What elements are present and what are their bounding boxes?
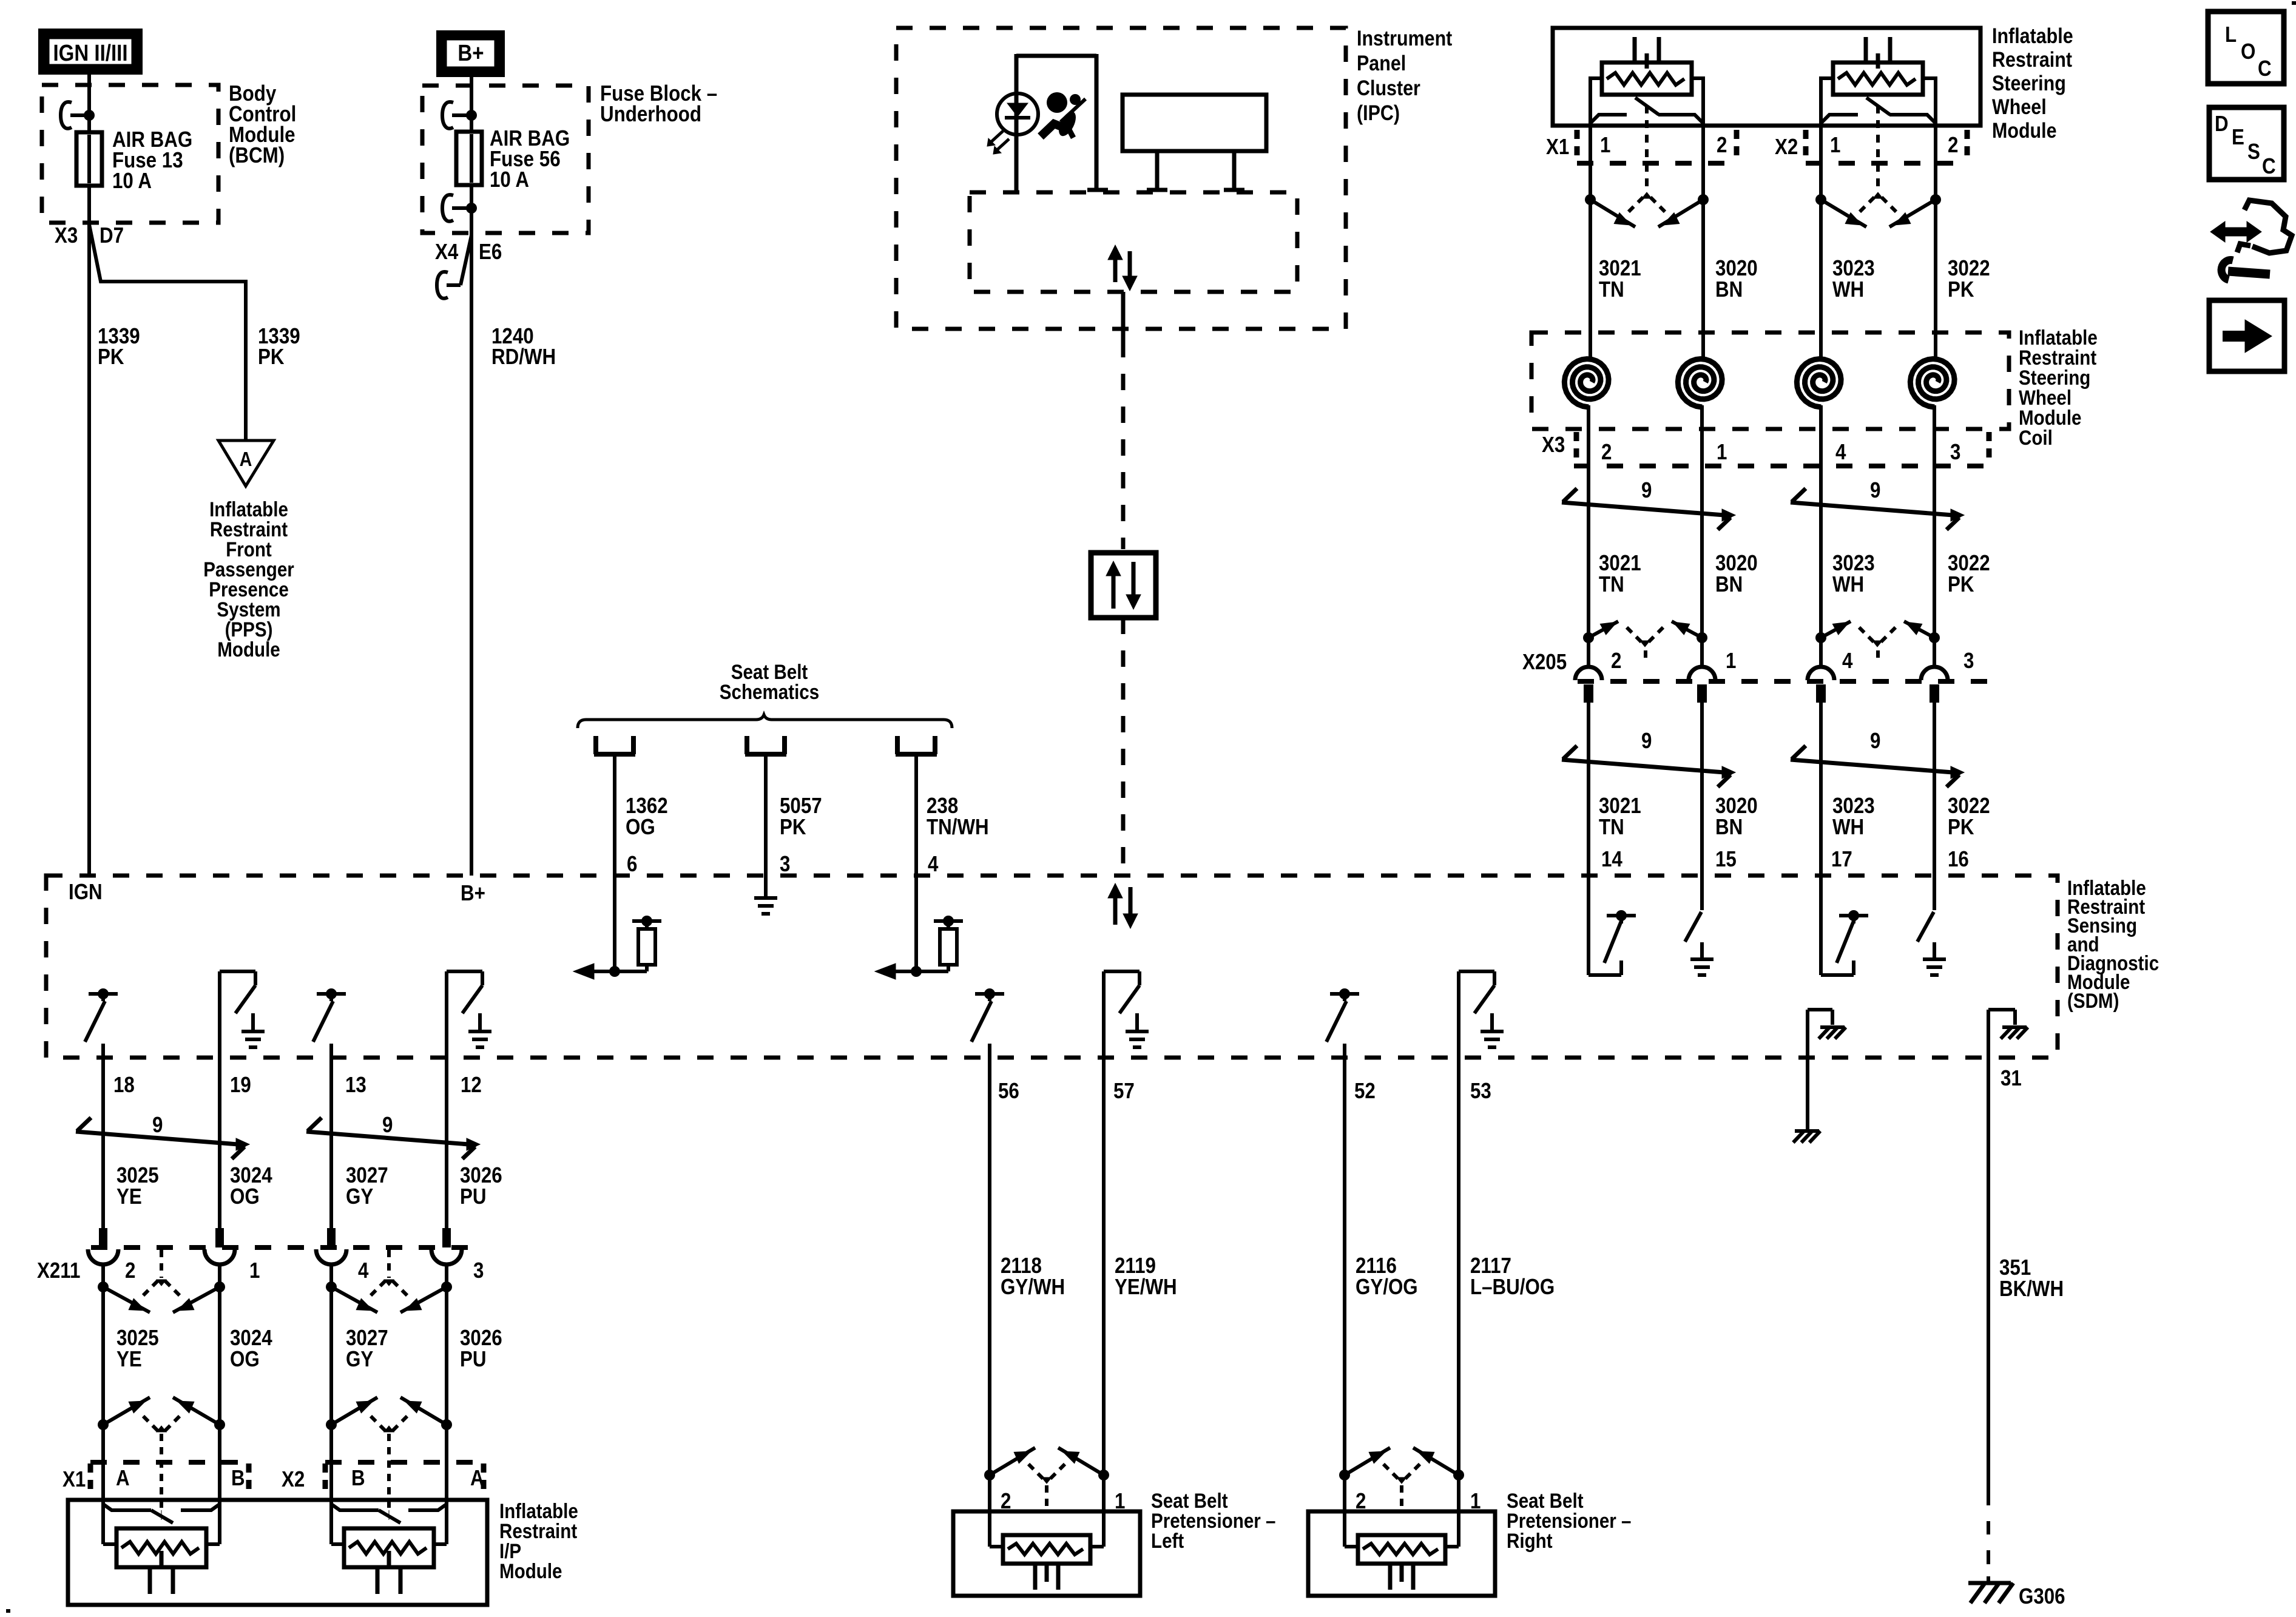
- serial data link box: [1091, 553, 1156, 618]
- label 1240 RD/WH: [491, 324, 556, 370]
- steering wheel module coil dashed box: [1531, 333, 2009, 429]
- svg-text:GY/WH: GY/WH: [1001, 1275, 1065, 1300]
- wire below X205 at x=2805: [1700, 703, 1704, 876]
- svg-text:WH: WH: [1832, 815, 1864, 840]
- wire below X205 at x=2618: [1587, 703, 1590, 876]
- wire through coil x=2618: [1587, 405, 1590, 668]
- connector labels X3 D7: [55, 223, 124, 248]
- svg-text:52: 52: [1354, 1079, 1376, 1104]
- harness marker 9 (IP wires right pair): [306, 1118, 480, 1159]
- wire 3020 BN from steering wheel module to coil: [1701, 123, 1705, 357]
- wire below X211 at x=546: [329, 1287, 333, 1425]
- terminal curl at BCM input: [61, 102, 85, 129]
- svg-text:Module: Module: [499, 1559, 562, 1582]
- svg-text:B: B: [231, 1466, 245, 1491]
- wire 3027 GY from SDM to X211: [329, 1058, 333, 1228]
- wire: B+ feed down to SDM pin 1: [470, 77, 473, 876]
- wire labels 3025 YE 3024 OG 3027 GY 3026 PU (row 2): [116, 1326, 502, 1372]
- svg-text:C: C: [2262, 154, 2276, 179]
- svg-text:9: 9: [1641, 729, 1652, 754]
- svg-text:2: 2: [1717, 133, 1727, 158]
- svg-text:S: S: [2247, 140, 2260, 164]
- svg-text:TN: TN: [1599, 572, 1624, 597]
- fuse AIR BAG Fuse 56: [456, 132, 482, 185]
- svg-text:1: 1: [1717, 440, 1727, 465]
- svg-text:Schematics: Schematics: [720, 680, 819, 703]
- shorting bar connector below X211 right pair: [326, 1250, 452, 1312]
- svg-text:B+: B+: [461, 881, 485, 906]
- svg-text:L–BU/OG: L–BU/OG: [1470, 1275, 1555, 1300]
- wire: 1339 PK branch to PPS module: [89, 224, 246, 441]
- svg-text:X2: X2: [282, 1467, 305, 1492]
- svg-text:Steering: Steering: [1992, 71, 2066, 95]
- svg-text:X2: X2: [1775, 135, 1798, 160]
- serial data wire from IPC to serial box: [1121, 292, 1126, 549]
- label 351 BK/WH: [1999, 1255, 2064, 1301]
- wire below X211 at x=362: [218, 1287, 221, 1425]
- svg-text:1: 1: [1726, 649, 1736, 673]
- seat belt harness connector bracket at x=1262: [745, 736, 786, 754]
- svg-text:2: 2: [1611, 649, 1621, 673]
- svg-text:6: 6: [627, 852, 637, 877]
- wire 2118 GY/WH: [988, 1058, 991, 1475]
- connector X211 pin and socket at x=362: [204, 1228, 235, 1287]
- svg-text:BK/WH: BK/WH: [1999, 1277, 2064, 1301]
- svg-text:BN: BN: [1715, 815, 1743, 840]
- svg-text:WH: WH: [1832, 572, 1864, 597]
- power feed box IGN II/III: [38, 29, 143, 75]
- SDM firing switch pin 14: [1589, 876, 1636, 975]
- svg-text:D7: D7: [100, 223, 124, 248]
- SDM bottom pin labels: [113, 1066, 2022, 1104]
- squib connector at left pretensioner: [984, 1448, 1109, 1511]
- wire 3025 YE from SDM to X211: [101, 1058, 105, 1228]
- svg-text:PK: PK: [1948, 815, 1974, 840]
- svg-text:13: 13: [345, 1073, 366, 1098]
- serial data arrows inside SDM: [1108, 883, 1138, 928]
- icon box LOC: [2208, 12, 2284, 84]
- clockspring coil at x=2618: [1564, 359, 1609, 408]
- svg-text:E: E: [2232, 125, 2244, 150]
- driver air bag squib 1 (steering wheel module): [1590, 37, 1703, 189]
- svg-text:56: 56: [998, 1079, 1019, 1104]
- svg-text:(SDM): (SDM): [2067, 989, 2119, 1012]
- junction dot at fuse 56 input: [466, 110, 477, 121]
- svg-text:1: 1: [1600, 133, 1610, 158]
- telltale frame in IPC: [1016, 54, 1108, 191]
- connector X2 row (IP module): [282, 1462, 484, 1492]
- IPC display rectangle with legs: [1123, 95, 1266, 191]
- wire into IP module at x=362: [218, 1425, 221, 1504]
- wire through coil x=3188: [1933, 405, 1936, 668]
- junction dot at BCM fuse input: [84, 110, 95, 121]
- inflatable restraint IP module box: [68, 1500, 487, 1605]
- svg-text:4: 4: [928, 852, 939, 877]
- clockspring coil at x=3188: [1910, 359, 1954, 408]
- clockspring coil at x=2805: [1678, 359, 1722, 408]
- SDM firing switch pin 13: [313, 988, 346, 1058]
- svg-text:TN/WH: TN/WH: [927, 815, 989, 840]
- label 9 lower right: [1870, 729, 1880, 754]
- label Inflatable Restraint Steering Wheel Module: [1992, 24, 2073, 142]
- svg-text:3: 3: [1950, 440, 1960, 465]
- svg-text:A: A: [470, 1466, 484, 1491]
- sensor resistor network for wire 238 inside SDM: [875, 916, 963, 979]
- svg-text:E6: E6: [479, 240, 502, 265]
- label Inflatable Restraint Front Passenger Presence System (PPS) Module: [203, 498, 294, 661]
- label 2117 L-BU/OG: [1470, 1254, 1555, 1300]
- SDM dashed box (Inflatable Restraint Sensing and Diagnostic Module): [46, 876, 2058, 1058]
- svg-text:Module: Module: [1992, 118, 2057, 142]
- label 2116 GY/OG: [1356, 1254, 1418, 1300]
- svg-text:WH: WH: [1832, 277, 1864, 302]
- svg-text:OG: OG: [230, 1184, 260, 1209]
- svg-text:9: 9: [382, 1113, 393, 1138]
- SDM firing switch pin 57: [1104, 971, 1149, 1058]
- svg-text:X3: X3: [55, 223, 78, 248]
- svg-text:GY/OG: GY/OG: [1356, 1275, 1418, 1300]
- label 9 lower left: [1641, 729, 1652, 754]
- fuse AIR BAG Fuse 13: [76, 132, 102, 186]
- svg-text:A: A: [240, 448, 252, 470]
- svg-text:18: 18: [113, 1073, 135, 1098]
- seat belt pretensioner right box and squib: [1308, 1475, 1495, 1596]
- svg-text:2: 2: [1601, 440, 1612, 465]
- svg-text:Coil: Coil: [2019, 426, 2053, 449]
- connector X2 row (steering wheel module): [1775, 130, 1967, 163]
- svg-text:GY: GY: [346, 1184, 373, 1209]
- label Seat Belt Schematics: [720, 660, 819, 703]
- svg-text:2: 2: [125, 1258, 135, 1283]
- label 9 upper right: [1870, 478, 1880, 503]
- SDM firing switch pin 19: [220, 971, 265, 1058]
- svg-text:IGN II/III: IGN II/III: [53, 40, 127, 66]
- harness marker 9 (right pair, lower): [1791, 746, 1964, 787]
- connector X1 row (IP module): [62, 1462, 249, 1492]
- svg-text:3: 3: [1963, 649, 1974, 673]
- SDM firing switch pin 56: [971, 988, 1004, 1058]
- SDM pin labels 14 15 17 16: [1601, 847, 1969, 872]
- svg-text:10 A: 10 A: [490, 167, 529, 192]
- svg-text:10 A: 10 A: [112, 169, 152, 194]
- label 9 bottom left: [152, 1113, 163, 1138]
- junction dot at fuse 56 output: [466, 203, 477, 214]
- svg-text:YE/WH: YE/WH: [1115, 1275, 1177, 1300]
- squib connector at right pretensioner: [1339, 1448, 1464, 1511]
- fuse block underhood dashed box: [422, 86, 589, 233]
- SDM firing switch pin 15: [1685, 876, 1714, 975]
- svg-text:D: D: [2215, 112, 2229, 137]
- svg-text:L: L: [2225, 22, 2237, 47]
- SDM chassis ground pin 31: [1988, 1010, 2028, 1058]
- label 1362 OG: [626, 794, 668, 840]
- wire 3026 PU from SDM to X211: [445, 1058, 448, 1228]
- label 5057 PK: [780, 794, 822, 840]
- shorting bar connector above X205 right pair: [1815, 621, 1940, 663]
- SDM firing switch pin 16: [1917, 876, 1946, 975]
- label 9 bottom right: [382, 1113, 393, 1138]
- connector X211 pin and socket at x=546: [316, 1228, 346, 1287]
- svg-text:X205: X205: [1522, 650, 1567, 675]
- label X211 and pin numbers: [37, 1258, 484, 1283]
- SDM firing switch pin 53: [1459, 971, 1504, 1058]
- svg-text:O: O: [2241, 39, 2255, 64]
- label AIR BAG Fuse 56 10 A: [490, 126, 570, 192]
- svg-text:X1: X1: [1546, 135, 1569, 160]
- chassis ground below SDM: [1793, 1131, 1820, 1143]
- serial data arrows in IPC inner box: [1108, 245, 1137, 291]
- svg-text:IGN: IGN: [69, 880, 103, 905]
- LED light arrows: [987, 131, 1009, 154]
- icon box DESC: [2209, 107, 2284, 180]
- earth ground for 5057 inside SDM: [754, 876, 777, 914]
- label 9 upper left: [1641, 478, 1652, 503]
- wire labels 3025 YE 3024 OG 3027 GY 3026 PU (row 1): [116, 1163, 502, 1209]
- connector X205 socket and pin at x=3001: [1808, 667, 1834, 703]
- label 1339 PK (branch): [258, 324, 300, 370]
- wire: IGN II/III feed down to SDM pin 33: [87, 75, 91, 876]
- label Inflatable Restraint Steering Wheel Module Coil: [2019, 326, 2098, 449]
- power feed box B+: [436, 30, 505, 77]
- svg-text:53: 53: [1470, 1079, 1491, 1104]
- svg-text:B: B: [351, 1466, 365, 1491]
- svg-text:Underhood: Underhood: [600, 102, 701, 127]
- wire 3023 WH from steering wheel module to coil: [1819, 123, 1823, 357]
- connector X205 dashed line: [1578, 679, 1990, 684]
- svg-text:9: 9: [1870, 729, 1880, 754]
- terminal curl at fuse 56 input: [442, 102, 467, 129]
- wire 238 TN/WH: [914, 754, 918, 971]
- page corner mark top right: [2292, 1, 2296, 5]
- svg-text:(BCM): (BCM): [229, 143, 285, 168]
- connector X211 pin and socket at x=170: [88, 1228, 118, 1287]
- wire below X211 at x=170: [101, 1287, 105, 1425]
- shorting bar connector above IP module X1: [98, 1397, 225, 1512]
- connector X211 dashed line: [91, 1245, 482, 1250]
- wire 2119 YE/WH: [1102, 1058, 1106, 1475]
- svg-text:4: 4: [1835, 440, 1846, 465]
- wire labels 3021 TN 3020 BN 3023 WH 3022 PK (row 1): [1599, 256, 1990, 302]
- inflatable restraint steering wheel module box: [1553, 28, 1980, 126]
- svg-text:1: 1: [1830, 133, 1840, 158]
- svg-text:Right: Right: [1507, 1529, 1553, 1552]
- IPC inner dashed box: [970, 192, 1297, 292]
- stub with terminal curl at X4: [437, 235, 471, 299]
- svg-text:(IPC): (IPC): [1357, 101, 1400, 124]
- svg-text:Inflatable: Inflatable: [1992, 24, 2073, 47]
- harness marker 9 (coil wires left pair, upper): [1562, 488, 1735, 530]
- svg-text:X4: X4: [435, 240, 459, 265]
- svg-text:3: 3: [780, 852, 790, 877]
- svg-text:B+: B+: [458, 40, 484, 66]
- harness marker 9 (left pair, lower): [1562, 746, 1735, 787]
- wire labels 3021 TN 3020 BN 3023 WH 3022 PK (row 2): [1599, 551, 1990, 597]
- off-page triangle A to PPS module: [218, 441, 274, 486]
- svg-text:PU: PU: [460, 1184, 487, 1209]
- connector labels X4 E6: [435, 240, 502, 265]
- wire 3022 PK from steering wheel module to coil: [1934, 123, 1937, 357]
- svg-text:OG: OG: [230, 1347, 260, 1372]
- BCM dashed box: [42, 85, 218, 223]
- svg-text:Restraint: Restraint: [1992, 47, 2072, 71]
- svg-text:A: A: [116, 1466, 130, 1491]
- connector X211 pin and socket at x=736: [431, 1228, 462, 1287]
- serial data wire from serial box to SDM: [1121, 618, 1126, 879]
- wire into IP module at x=170: [101, 1425, 105, 1504]
- wire below X211 at x=736: [445, 1287, 448, 1425]
- svg-text:PK: PK: [1948, 572, 1974, 597]
- SDM internal chassis ground pair: [1808, 1010, 1846, 1131]
- svg-text:12: 12: [461, 1073, 482, 1098]
- svg-text:1: 1: [249, 1258, 260, 1283]
- svg-text:TN: TN: [1599, 815, 1624, 840]
- airbag indicator LED circle: [997, 93, 1038, 135]
- chassis ground G306: [1968, 1583, 2013, 1603]
- pin labels at left pretensioner: [1001, 1489, 1125, 1514]
- wire 5057 PK: [764, 754, 768, 898]
- svg-text:PK: PK: [780, 815, 806, 840]
- driver air bag squib 2 (steering wheel module): [1821, 37, 1936, 189]
- label 238 TN/WH: [927, 794, 989, 840]
- SDM pin labels 6 3 4: [627, 852, 939, 877]
- svg-text:9: 9: [1870, 478, 1880, 503]
- seat belt harness connector bracket at x=1013: [594, 736, 635, 754]
- svg-text:X1: X1: [62, 1467, 86, 1492]
- icon wrench and harness: [2210, 200, 2292, 280]
- svg-text:BN: BN: [1715, 277, 1743, 302]
- label Fuse Block - Underhood: [600, 81, 717, 127]
- svg-text:Instrument: Instrument: [1357, 26, 1452, 50]
- label 2118 GY/WH: [1001, 1254, 1065, 1300]
- svg-text:Left: Left: [1151, 1529, 1184, 1552]
- wire labels 3021 TN 3020 BN 3023 WH 3022 PK (row 3): [1599, 794, 1990, 840]
- svg-text:Cluster: Cluster: [1357, 76, 1420, 100]
- label Inflatable Restraint I/P Module: [499, 1499, 578, 1582]
- svg-text:9: 9: [1641, 478, 1652, 503]
- label 1339 PK (left): [98, 324, 140, 370]
- clockspring coil at x=3001: [1797, 359, 1841, 408]
- passenger air bag squib 2 (IP module): [331, 1504, 447, 1594]
- label Seat Belt Pretensioner Left: [1151, 1489, 1275, 1552]
- svg-text:Panel: Panel: [1357, 51, 1406, 75]
- page corner mark bottom left: [6, 1609, 10, 1613]
- shorting bar connector below X1: [1585, 192, 1709, 227]
- svg-text:PK: PK: [1948, 277, 1974, 302]
- airbag person icon: [1041, 92, 1086, 139]
- SDM firing switch pin 17: [1821, 876, 1868, 975]
- connector X205 socket and pin at x=3188: [1921, 667, 1948, 703]
- harness marker 9 (IP wires left pair): [76, 1118, 249, 1159]
- wire 3024 OG from SDM to X211: [218, 1058, 221, 1228]
- label G306: [2019, 1584, 2065, 1609]
- wire below X205 at x=3001: [1819, 703, 1823, 876]
- svg-text:OG: OG: [626, 815, 655, 840]
- passenger air bag squib 1 (IP module): [103, 1504, 220, 1594]
- shorting bar connector below X2: [1815, 192, 1941, 227]
- connector X205 socket and pin at x=2805: [1689, 667, 1715, 703]
- wire into IP module at x=736: [445, 1425, 448, 1504]
- shorting bar connector below X211 left pair: [98, 1250, 225, 1312]
- SDM firing switch pin 52: [1326, 988, 1359, 1058]
- terminal curl at fuse 56 output: [442, 195, 467, 221]
- svg-text:4: 4: [1842, 649, 1853, 673]
- svg-text:14: 14: [1601, 847, 1622, 872]
- sensor resistor network for wire 1362 inside SDM: [573, 916, 661, 979]
- label Seat Belt Pretensioner Right: [1507, 1489, 1631, 1552]
- wire through coil x=2805: [1700, 405, 1704, 668]
- svg-text:G306: G306: [2019, 1584, 2065, 1609]
- SDM firing switch pin 12: [447, 971, 491, 1058]
- svg-text:TN: TN: [1599, 277, 1624, 302]
- svg-text:GY: GY: [346, 1347, 373, 1372]
- wire 2116 GY/OG: [1343, 1058, 1346, 1475]
- svg-text:YE: YE: [116, 1347, 142, 1372]
- svg-text:57: 57: [1113, 1079, 1135, 1104]
- SDM firing switch pin 18: [85, 988, 118, 1058]
- harness marker 9 (coil wires right pair, upper): [1791, 488, 1964, 530]
- wire 2117 L-BU/OG: [1457, 1058, 1460, 1475]
- wire 3021 TN from steering wheel module to coil: [1589, 123, 1592, 357]
- label Inflatable Restraint Sensing and Diagnostic Module (SDM): [2067, 876, 2159, 1012]
- seat belt harness connector bracket at x=1510: [896, 736, 937, 754]
- label Body Control Module (BCM): [229, 81, 296, 168]
- icon box arrow: [2209, 300, 2284, 371]
- seat belt pretensioner left box and squib: [953, 1475, 1140, 1596]
- svg-text:17: 17: [1831, 847, 1852, 872]
- svg-text:3: 3: [473, 1258, 484, 1283]
- wire through coil x=3001: [1819, 405, 1823, 668]
- pin labels at right pretensioner: [1356, 1489, 1481, 1514]
- svg-text:2: 2: [1948, 133, 1958, 158]
- connector X205 socket and pin at x=2618: [1575, 667, 1602, 703]
- wire 1362 OG: [613, 754, 616, 971]
- svg-text:Module: Module: [217, 638, 280, 661]
- svg-text:16: 16: [1948, 847, 1969, 872]
- IPC outer dashed box: [896, 28, 1346, 329]
- label AIR BAG Fuse 13 10 A: [112, 127, 192, 194]
- wire 351 BK/WH from SDM pin 31 to G306: [1987, 1058, 1990, 1582]
- connector X1 row (steering wheel module): [1546, 130, 1737, 163]
- svg-text:31: 31: [2001, 1066, 2022, 1091]
- svg-text:YE: YE: [116, 1184, 142, 1209]
- svg-text:4: 4: [358, 1258, 369, 1283]
- shorting bar connector above IP module X2: [326, 1397, 452, 1512]
- svg-text:X3: X3: [1542, 433, 1565, 457]
- connector X3 row (coil): [1542, 432, 1990, 466]
- label 2119 YE/WH: [1115, 1254, 1177, 1300]
- svg-text:PU: PU: [460, 1347, 487, 1372]
- svg-text:Wheel: Wheel: [1992, 95, 2047, 118]
- svg-text:RD/WH: RD/WH: [491, 345, 556, 370]
- svg-text:PK: PK: [258, 345, 285, 370]
- label IGN inside SDM: [69, 880, 103, 905]
- shorting bar connector above X205 left pair: [1583, 621, 1707, 663]
- wire below X205 at x=3188: [1933, 703, 1936, 876]
- svg-text:BN: BN: [1715, 572, 1743, 597]
- svg-text:X211: X211: [37, 1258, 80, 1283]
- brace for seat belt schematics: [578, 715, 952, 728]
- svg-text:15: 15: [1715, 847, 1737, 872]
- svg-text:PK: PK: [98, 345, 124, 370]
- label B+ inside SDM: [461, 881, 485, 906]
- svg-text:C: C: [2258, 56, 2272, 81]
- svg-text:19: 19: [230, 1073, 251, 1098]
- wire into IP module at x=546: [329, 1425, 333, 1504]
- svg-text:9: 9: [152, 1113, 163, 1138]
- label Instrument Panel Cluster (IPC): [1357, 26, 1452, 124]
- label X205 and pin numbers: [1522, 649, 1974, 675]
